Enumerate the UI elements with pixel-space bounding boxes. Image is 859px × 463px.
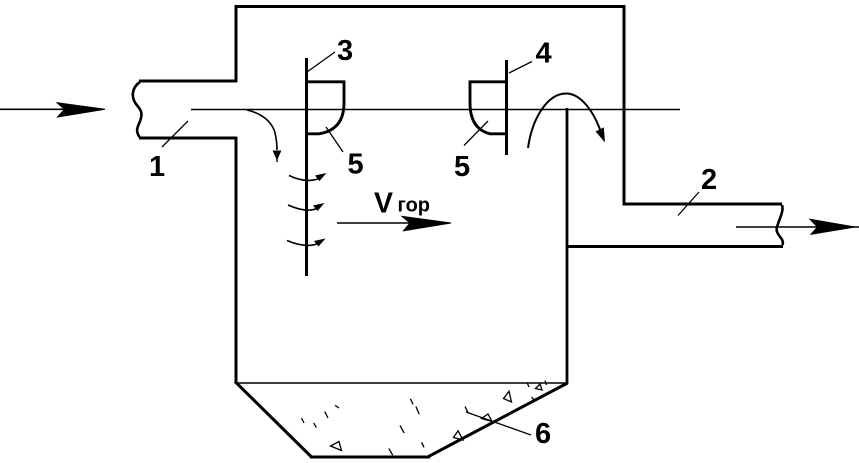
outlet pipe bottom wall	[566, 245, 783, 248]
inlet flow arrow	[0, 103, 105, 117]
dust pocket 5 on baffle 4	[470, 82, 507, 134]
svg-text:5: 5	[454, 151, 470, 183]
chamber left wall upper segment	[235, 6, 238, 82]
leader line for label 6	[466, 412, 531, 435]
svg-text:3: 3	[337, 35, 353, 67]
vortex arc arrow 3	[287, 239, 326, 247]
outlet flow arrow	[736, 219, 859, 234]
hopper top thin line	[236, 382, 567, 384]
V gor velocity arrow	[337, 216, 451, 231]
leader line for label 3	[307, 52, 335, 72]
chamber top wall	[235, 5, 626, 8]
baffle 3 (vertical plate)	[305, 58, 308, 276]
svg-text:6: 6	[535, 418, 551, 450]
svg-text:4: 4	[536, 38, 552, 70]
chamber right wall	[623, 6, 626, 205]
dust pocket 5 on baffle 3	[307, 82, 344, 134]
vortex arc arrow 1	[289, 173, 327, 181]
hopper left slant wall	[235, 382, 311, 457]
hopper right slant wall	[429, 383, 568, 457]
chamber left wall lower segment	[235, 137, 238, 383]
inlet pipe bottom wall	[139, 137, 237, 140]
leader line for label 5 left	[326, 127, 343, 152]
svg-text:гор: гор	[398, 195, 431, 217]
weir overflow curved arrow	[528, 93, 605, 148]
outlet pipe break (wavy end)	[777, 205, 783, 245]
V gor label	[374, 188, 430, 220]
inlet downward curved flow arrow	[247, 110, 281, 162]
svg-text:1: 1	[149, 151, 165, 183]
leader line for label 2	[678, 192, 699, 216]
outlet pipe top wall	[623, 203, 783, 206]
leader line for label 4	[509, 62, 532, 74]
hopper bottom wall	[310, 456, 430, 459]
gas flow axis thin line	[191, 109, 680, 111]
inlet pipe top wall	[139, 80, 237, 83]
vortex arc arrow 2	[288, 203, 325, 211]
leader line for label 1	[162, 121, 188, 147]
svg-text:V: V	[374, 188, 393, 220]
inlet pipe break (wavy end)	[133, 82, 142, 137]
leader line for label 5 right	[464, 121, 488, 146]
weir wall (chamber inner right wall)	[566, 108, 569, 384]
svg-text:5: 5	[348, 149, 364, 181]
baffle 4 (vertical plate)	[505, 60, 508, 155]
svg-text:2: 2	[701, 164, 717, 196]
dust particle triangles	[331, 384, 543, 451]
dust particle ticks	[302, 381, 547, 456]
